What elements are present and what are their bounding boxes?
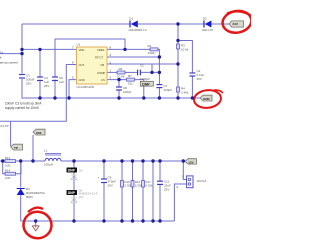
svg-text:2200pF: 2200pF [140,77,150,81]
wire RT/CT line [107,56,159,58]
wire CS line to R7 [107,79,126,81]
svg-text:220pF: 220pF [164,88,173,92]
resistor R14 parallel shunt [3,161,21,180]
resistor R6 [117,67,125,79]
svg-text:25V: 25V [164,188,169,192]
svg-text:10.0k: 10.0k [181,48,189,52]
DNP diode D5 [67,168,84,180]
svg-text:0.82: 0.82 [5,163,11,167]
capacitor C5 [52,76,64,84]
wire C5 branch with jog over IC to VREF [54,80,56,99]
svg-text:VDD: VDD [79,48,85,52]
svg-text:UCC28C42D: UCC28C42D [77,85,95,89]
ground symbol (circled) [32,221,39,231]
wire C8 branch from CS node [118,80,120,87]
node bottom rail R16 [131,219,134,222]
node bottom rail DNP [72,219,75,222]
svg-text:25V: 25V [44,84,49,88]
op-amp/PWM controller U1 [72,43,112,90]
port tag 24V input (top right) [229,21,244,27]
node out rail R15 [120,159,123,162]
capacitor C4 [37,76,49,88]
resistor R4 [177,87,189,95]
wire C2 to ground rail [191,76,193,98]
svg-text:1k: 1k [0,51,4,55]
diode D1 [128,16,147,32]
svg-text:supply current for 10mS: supply current for 10mS [5,106,39,110]
wire left edge feed [0,53,22,55]
svg-text:R13: R13 [5,156,11,160]
node C4 top [38,48,41,51]
svg-text:DNP: DNP [68,191,76,195]
svg-text:DNP: DNP [68,169,76,173]
port tag bottom-left lower [11,144,23,150]
port tag ground net (mid right) [200,95,212,101]
svg-text:24V: 24V [233,22,238,26]
node out rail C9 [102,159,105,162]
capacitor C2 [189,69,204,81]
wire left column vertical x22 [21,24,23,74]
capacitor C9 (polarized) [98,175,117,187]
wire D4 branch [20,161,22,188]
svg-text:ED1J-TP: ED1J-TP [202,28,213,32]
svg-text:15V: 15V [188,160,193,164]
svg-text:D5: D5 [79,169,83,173]
wire plain branch x153 [152,161,154,221]
node FB divider [176,62,179,65]
svg-text:GND: GND [203,97,211,101]
node RT/CT [158,55,161,58]
node gnd rail R4 [176,96,179,99]
svg-text:100k: 100k [148,51,155,55]
node out rail D4 [19,159,22,162]
wire C4 branch [39,49,41,76]
DNP label box near C1 [140,81,153,86]
svg-text:VREF: VREF [97,48,105,52]
resistor R3 [177,44,189,52]
svg-text:100pF: 100pF [123,90,132,94]
wire R6 to C1 [125,71,137,73]
svg-text:L1: L1 [44,149,48,153]
svg-text:RT/CT: RT/CT [95,56,103,60]
svg-text:C1: C1 [140,63,144,67]
svg-text:10V: 10V [79,195,84,199]
svg-text:2.40k: 2.40k [181,91,189,95]
node gnd rail GND pin [67,96,70,99]
connector J2 [177,175,207,190]
svg-text:OUT: OUT [79,63,85,67]
node bottom rail x153 [151,219,154,222]
wire R7 right corner down to ground rail [135,80,144,98]
wire C9 branch [103,161,105,179]
capacitor C7 [156,84,172,92]
svg-text:5: 5 [72,76,74,80]
node out rail R16 [131,159,134,162]
svg-text:2: 2 [177,185,179,189]
capacitor C1 [138,63,151,80]
node bottom rail C9 [102,219,105,222]
wire R16 branch [132,161,134,221]
svg-text:art up current: art up current [0,61,18,65]
svg-text:800V: 800V [26,195,33,199]
svg-text:+: + [98,176,100,180]
note text start up current (left edge, cropped) [0,51,18,65]
node top rail / R3 column [176,22,179,25]
svg-text:25V: 25V [108,183,113,187]
node gnd rail C8 [117,96,120,99]
wire VDD rail [22,48,77,50]
svg-text:k: k [0,56,2,60]
wire RT/CT node down to C7 [158,57,160,84]
resistor R17 [142,180,153,188]
node out rail x153 [151,159,154,162]
svg-text:100μH: 100μH [44,163,53,167]
node VDD rail x22 [20,48,23,51]
svg-text:5.32k: 5.32k [146,184,153,188]
capacitor C11 [157,180,171,192]
resistor R2 [148,44,159,55]
node out rail flag [31,159,34,162]
svg-text:GND: GND [79,78,85,82]
note text about C3 [5,102,42,111]
node gnd rail C4 [38,96,41,99]
wire tag stub bottom left [10,121,12,146]
node left feed x22 [20,52,23,55]
red annotation circle around ground symbol [22,208,53,240]
svg-text:0.82: 0.82 [5,176,11,180]
wire R2 right corner down to RT/CT node [158,49,159,57]
svg-text:U1: U1 [77,43,81,47]
wire C2 branch top jog [178,41,192,74]
wire left column below C3 [21,79,24,98]
wire net flag riser x33 [32,135,34,161]
svg-text:DNI: DNI [36,131,41,135]
wire DNP diode branch [73,161,75,221]
wire C7 to ground rail [158,88,160,98]
wire output rail left of L1 [0,160,45,162]
svg-text:1N4148WS-7-F: 1N4148WS-7-F [128,28,147,32]
node gnd rail C2 [191,96,194,99]
svg-text:04-TP: 04-TP [1,124,9,128]
port tag output rail (right) [185,159,197,165]
svg-text:D1: D1 [129,16,133,20]
wire C11 branch [159,161,161,181]
red annotation circle around 24V tag [221,9,253,35]
svg-text:DNP: DNP [142,82,150,86]
node C2 jog [176,39,179,42]
node bottom rail R17 [141,219,144,222]
svg-text:15V/1A: 15V/1A [197,179,207,183]
capacitor C8 [116,86,132,94]
resistor R13 shunt on rail [5,156,16,167]
svg-text:R7: R7 [128,74,132,78]
wire D2 anode to input tag [211,23,229,25]
svg-text:25V: 25V [197,77,202,81]
resistor R16 [131,180,142,188]
node gnd rail C7 [158,96,161,99]
node out rail C11 [158,159,161,162]
wire R3/R4 column from top rail to ground rail [177,24,179,44]
svg-text:4: 4 [110,53,112,57]
wire GND pin down to ground rail [69,80,77,98]
node gnd rail C5 [53,96,56,99]
svg-text:R6: R6 [119,67,123,71]
wire R17 branch [142,161,144,221]
wire bottom ground rail [21,220,175,222]
wire R15 branch [121,161,123,221]
svg-text:FB: FB [101,63,105,67]
wire FB bridge down to COMP line [151,64,153,72]
svg-text:R2: R2 [148,44,152,48]
wire output rail right of L1 [61,160,185,162]
wire connector pin1 riser [183,161,186,180]
node CS filter [117,78,120,81]
wire COMP pin to R6 [107,71,117,73]
resistor R15 [121,180,132,188]
svg-text:D2: D2 [203,16,207,20]
svg-text:CS: CS [101,78,105,82]
node out rail R14 left [1,159,4,162]
wire C1 to C7 node [141,71,160,73]
diode D4 [17,187,45,199]
svg-text:D4: D4 [26,187,30,191]
port tag net flag x33 [33,129,45,135]
svg-text:511: 511 [128,82,133,86]
svg-text:25V: 25V [26,82,31,86]
wire ground rail [22,97,200,99]
capacitor C3 [19,74,35,86]
svg-text:1uF: 1uF [59,80,64,84]
red annotation circle around mid-right tag [193,89,222,109]
wire OUT pin down and left (gate drive) [0,65,77,122]
node bottom rail C11 [158,219,161,222]
resistor R7 [127,74,135,85]
svg-text:COMP: COMP [97,71,106,75]
svg-text:TP: TP [14,146,18,150]
wire VREF to R2 [107,48,150,50]
svg-text:1: 1 [110,68,112,72]
node out rail DNP [72,159,75,162]
diode D2 [202,16,213,32]
node gnd rail R7 [142,96,145,99]
svg-text:100uF C3 to hold up 3mA: 100uF C3 to hold up 3mA [5,102,42,106]
inductor L1 [44,149,61,167]
wire D1 anode to D2 cathode [138,23,204,25]
svg-text:10.0k: 10.0k [117,75,125,79]
wire connector pin2 to bottom rail [174,184,186,221]
node FB bridge [150,71,153,74]
node out rail pin1 [182,159,185,162]
node bottom rail R15 [120,219,123,222]
node COMP/C7 column [158,71,161,74]
svg-text:R14: R14 [5,168,11,172]
node bottom rail gnd stub [34,219,37,222]
svg-text:6: 6 [72,61,74,65]
DNP diode D6 [67,189,98,203]
svg-text:3: 3 [110,76,112,80]
node out rail R17 [141,159,144,162]
node VREF jog [123,48,126,51]
wire FB line [107,63,178,65]
wire top rail from left column to D1 [22,23,130,25]
